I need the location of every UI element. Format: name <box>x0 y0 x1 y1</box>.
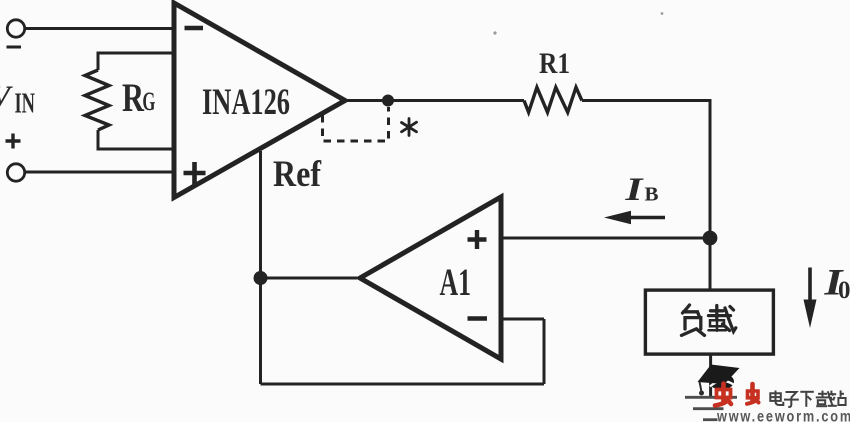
svg-text:www.eeworm.com: www.eeworm.com <box>716 409 850 422</box>
wire feedback right vertical <box>543 319 546 384</box>
plus sign inside A1 <box>468 230 487 249</box>
label IB <box>624 172 658 208</box>
input terminal bottom (positive) <box>7 164 24 181</box>
minus sign pin 2 inside INA126 <box>185 26 204 31</box>
load box 负载 <box>645 290 773 354</box>
dashed gain-sense box at output <box>323 107 389 141</box>
wire bottom input to INA126 <box>26 171 173 174</box>
svg-text:INA126: INA126 <box>202 82 290 123</box>
wire A1 noninverting input to node <box>501 237 710 240</box>
node dot at Ref / A1 output <box>254 271 268 285</box>
input terminal top (negative) <box>7 20 24 37</box>
label 负载 (load) hand-drawn strokes <box>682 305 736 335</box>
label RG <box>122 75 155 120</box>
svg-text:0: 0 <box>838 277 850 304</box>
wire feedback bottom <box>261 383 545 386</box>
wire load box to ground <box>709 354 712 396</box>
wire A1 inverting input <box>501 318 544 321</box>
label VIN <box>0 79 35 120</box>
node dot at INA126 output <box>382 95 394 107</box>
arrow IB pointing left <box>630 216 665 220</box>
svg-text:R1: R1 <box>539 47 570 80</box>
wire A1 output to Ref node <box>261 277 358 280</box>
op-amp U1 INA126 triangle <box>174 3 345 198</box>
op-amp A1 triangle <box>360 197 501 359</box>
svg-text:IN: IN <box>15 89 36 120</box>
minus label at top terminal <box>7 46 22 49</box>
wire Ref vertical from INA126 to feedback bottom <box>259 151 262 384</box>
svg-text:V: V <box>0 79 13 114</box>
wire RG top lead <box>98 53 172 70</box>
wire top input to INA126 <box>26 27 173 30</box>
minus sign inside A1 <box>468 316 488 320</box>
asterisk mark <box>402 119 417 136</box>
plus label at bottom terminal <box>6 134 21 149</box>
plus sign pin 3 inside INA126 <box>184 162 206 185</box>
ground symbol <box>685 397 737 419</box>
resistor R1 zigzag <box>524 87 582 112</box>
speck artifacts <box>493 31 496 34</box>
wire RG bottom lead <box>98 130 172 149</box>
arrow I0 pointing down <box>808 268 812 303</box>
svg-text:A1: A1 <box>440 261 472 304</box>
watermark 电子下载站 gray characters <box>770 390 845 406</box>
wire R1 to right corner and down <box>582 101 710 291</box>
watermark 虫虫 red characters <box>715 384 759 406</box>
wire INA126 output <box>346 99 524 102</box>
node dot at load top <box>703 231 718 246</box>
svg-text:G: G <box>142 87 155 116</box>
watermark graduation cap <box>698 365 740 396</box>
label I0 <box>823 263 850 305</box>
svg-text:B: B <box>645 184 659 206</box>
svg-text:I: I <box>624 172 644 208</box>
resistor RG zigzag <box>85 70 109 130</box>
svg-text:Ref: Ref <box>273 154 322 195</box>
